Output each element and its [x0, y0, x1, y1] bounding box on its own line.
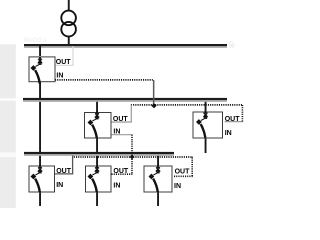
- wire bus B2 to switch Q2: [96, 102, 98, 113]
- switch Q6 box: [144, 166, 172, 192]
- wire switch Q6 stub bottom: [157, 192, 159, 206]
- switch Q3 box: [193, 112, 223, 138]
- svg-text:OUT: OUT: [56, 168, 71, 175]
- wire transformer to busbar B1: [68, 36, 70, 44]
- switch Q1 box: [29, 57, 55, 82]
- wire transformer top lead: [68, 0, 70, 11]
- busbar B2: [23, 98, 227, 102]
- link IN Q2 underline: [112, 134, 133, 136]
- svg-text:IN: IN: [56, 182, 63, 189]
- switch Q6 symbol: [149, 165, 161, 192]
- node diamond junction bus3 net: [130, 155, 135, 159]
- dotted link row2 OUT net: [131, 104, 243, 106]
- switch Q2 box: [85, 113, 112, 139]
- svg-text:IN: IN: [225, 130, 232, 137]
- svg-text:IN: IN: [56, 73, 63, 80]
- wire bus B3 to switch Q4: [39, 156, 41, 166]
- dotted link bus3 net horizontal: [74, 156, 193, 158]
- switch Q3 symbol: [196, 111, 208, 138]
- link OUT Q2 to dotted net: [112, 105, 132, 122]
- dotted link IN Q1: [55, 79, 153, 81]
- link OUT Q1 to bus B1 (faint): [55, 46, 73, 65]
- switch Q5 symbol: [88, 165, 100, 192]
- switch Q4 symbol: [31, 165, 43, 192]
- wire bus B1 to switch Q1: [39, 46, 41, 56]
- svg-text:OUT: OUT: [56, 59, 72, 66]
- wire bus B2 to switch Q3: [205, 102, 207, 112]
- link OUT Q4 to bus B3: [55, 156, 73, 174]
- svg-text:///: ///: [229, 44, 234, 50]
- wire switch Q2 to bus B3: [96, 138, 98, 152]
- wire switch Q4 stub bottom: [39, 192, 41, 206]
- svg-text:IN: IN: [174, 183, 181, 190]
- transformer T1: [61, 11, 76, 37]
- left panel gap at bus2: [0, 98, 16, 100]
- left panel strip: [0, 44, 16, 208]
- wire IN Q1 drop to node: [153, 80, 155, 105]
- switch Q1 symbol: [31, 57, 43, 84]
- dotted link OUT Q5 underline: [112, 173, 133, 175]
- dotted link OUT Q6 underline: [174, 175, 193, 177]
- wire switch Q1 to bus B2: [39, 82, 41, 99]
- busbar B3: [24, 152, 174, 156]
- wire switch Q5 stub bottom: [96, 192, 98, 206]
- wire switch Q3 stub bottom: [205, 138, 207, 153]
- left panel gap at bus3: [0, 152, 16, 157]
- busbar B1: [24, 44, 227, 48]
- svg-text:OUT: OUT: [175, 168, 191, 175]
- wire bus B3 to switch Q5: [96, 156, 98, 166]
- svg-text:NUDO 1: NUDO 1: [24, 38, 47, 44]
- dotted link IN Q2 to OUT Q5: [131, 135, 133, 175]
- link OUT Q3 underline: [225, 121, 243, 123]
- dotted link OUT Q6 riser: [191, 157, 193, 176]
- wire bus B3 to switch Q6: [157, 156, 159, 166]
- switch Q2 symbol: [88, 111, 100, 138]
- node diamond junction row2: [151, 103, 156, 108]
- svg-text:IN: IN: [113, 182, 120, 189]
- dotted link OUT Q3 riser: [241, 105, 243, 122]
- wire bus B2 to bus B3 column 1: [39, 102, 41, 152]
- switch Q5 box: [86, 166, 112, 192]
- switch Q4 box: [29, 166, 55, 192]
